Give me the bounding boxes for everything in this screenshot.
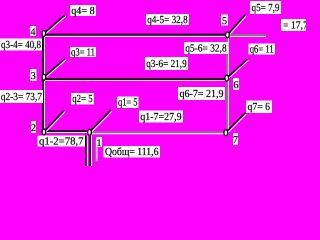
svg-text:q1-2=78,7: q1-2=78,7	[39, 135, 84, 147]
wire edge 4-5	[44, 35, 227, 37]
svg-text:q5-6= 32,8: q5-6= 32,8	[185, 43, 227, 55]
label Qобщ= 111,6	[104, 146, 161, 158]
svg-text:q6= 11: q6= 11	[250, 43, 274, 55]
label q1-7=27,9	[139, 111, 183, 124]
wire edge 5-6	[227, 35, 228, 78]
svg-text:q4-5= 32,8: q4-5= 32,8	[147, 14, 188, 26]
label q5= 7,9	[250, 1, 281, 14]
label q6= 11	[249, 43, 276, 55]
label = 17,7 (cut at right edge)	[281, 19, 309, 32]
node number 6	[233, 78, 239, 91]
svg-text:Qобщ= 111,6: Qобщ= 111,6	[105, 146, 159, 158]
label q4-5= 32,8	[146, 14, 189, 26]
svg-text:1: 1	[96, 138, 101, 149]
svg-text:4: 4	[30, 27, 35, 38]
node number 2	[31, 121, 36, 134]
label q1= 5	[117, 97, 139, 109]
node 7	[224, 130, 228, 136]
svg-text:q1= 5: q1= 5	[118, 97, 138, 109]
svg-text:6: 6	[233, 80, 238, 91]
svg-text:5: 5	[222, 16, 227, 27]
label q6-7= 21,9	[178, 87, 225, 100]
svg-text:q5= 7,9: q5= 7,9	[252, 2, 280, 14]
wire edge 1-7	[90, 132, 226, 133]
wire edge 3-6	[44, 79, 227, 80]
wire edge 3-4	[43, 34, 45, 78]
label q1-2=78,7	[38, 135, 86, 147]
label q2-3= 73,7	[0, 90, 43, 103]
label q3= 11	[70, 46, 96, 58]
node number 4	[30, 26, 36, 38]
label q5-6= 32,8	[184, 42, 228, 55]
wire stub right of node 5	[230, 35, 266, 36]
label q2= 5	[71, 93, 94, 105]
wire supply line C below node 1	[96, 141, 97, 161]
node 6	[225, 75, 229, 81]
svg-text:q3= 11: q3= 11	[71, 46, 95, 58]
wire edge 6-7	[227, 78, 228, 133]
label q7= 6	[246, 101, 272, 114]
svg-text:q2-3= 73,7: q2-3= 73,7	[1, 91, 43, 103]
svg-text:3: 3	[31, 71, 36, 82]
node 5	[226, 32, 230, 38]
svg-text:q3-6= 21,9: q3-6= 21,9	[146, 58, 187, 70]
svg-text:7: 7	[233, 135, 238, 146]
wire diagonal stub at node 7	[227, 113, 246, 133]
node 2	[42, 129, 46, 135]
svg-text:2: 2	[31, 123, 36, 134]
svg-text:q7= 6: q7= 6	[248, 101, 271, 113]
wire diagonal stub at node 2	[45, 111, 65, 132]
label q3-4= 40,8	[0, 39, 42, 52]
wire edge 1-2	[44, 131, 89, 132]
wire diagonal stub at node 1	[90, 110, 111, 132]
svg-text:q4= 8: q4= 8	[71, 5, 95, 17]
node number 1	[96, 137, 102, 149]
wire diagonal stub at node 6	[228, 60, 249, 79]
node 4	[42, 31, 46, 37]
wire diagonal stub at node 5	[228, 15, 246, 35]
wire supply line A below node 1	[86, 136, 87, 167]
node 3	[42, 74, 46, 80]
svg-text:= 17,7: = 17,7	[283, 20, 306, 32]
svg-text:q6-7= 21,9: q6-7= 21,9	[180, 88, 224, 100]
wire diagonal stub at node 4	[45, 15, 66, 34]
node number 5	[221, 15, 228, 27]
node 1	[88, 129, 92, 135]
wire supply line B below node 1	[90, 136, 91, 167]
wire diagonal stub at node 3	[45, 59, 66, 77]
wire edge 2-3	[43, 77, 45, 131]
node number 3	[30, 69, 37, 82]
svg-text:q1-7=27,9: q1-7=27,9	[140, 111, 182, 123]
label q4= 8	[70, 5, 96, 17]
svg-text:q3-4= 40,8: q3-4= 40,8	[1, 39, 41, 51]
node number 7	[233, 133, 238, 146]
svg-text:q2= 5: q2= 5	[72, 93, 93, 105]
label q3-6= 21,9	[145, 57, 188, 70]
